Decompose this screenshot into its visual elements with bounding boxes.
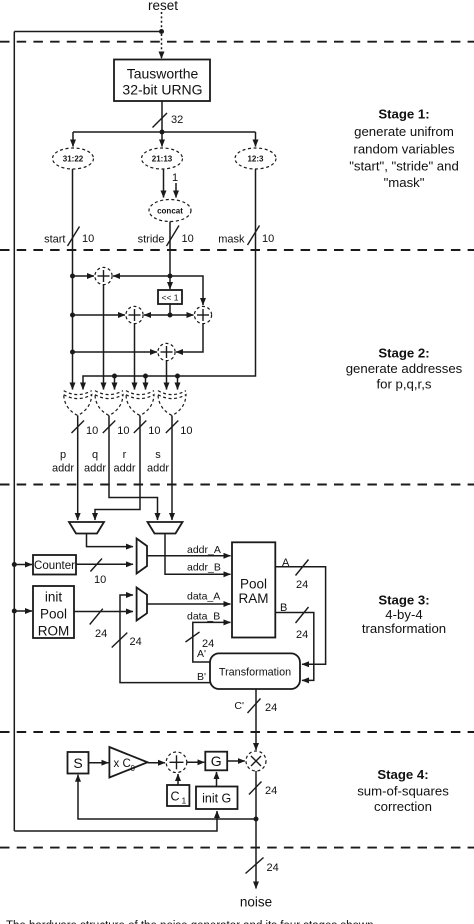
wire multiplier output to noise bbox=[255, 771, 257, 889]
wire s addr to mux M2 bbox=[171, 416, 173, 521]
junction start row3 bbox=[70, 350, 75, 355]
wire adder A1 output to XOR2 bbox=[103, 285, 105, 390]
junction start row1 bbox=[70, 274, 75, 279]
C1 box bbox=[167, 785, 189, 806]
svg-text:noise: noise bbox=[240, 895, 272, 910]
svg-text:init: init bbox=[45, 590, 63, 605]
S box bbox=[68, 752, 89, 774]
svg-text:addr_B: addr_B bbox=[187, 562, 221, 574]
junction feedback S bbox=[254, 817, 259, 822]
bus slash s 10 bbox=[166, 421, 193, 438]
svg-text:24: 24 bbox=[267, 862, 279, 874]
bus slash A' 24 bbox=[186, 632, 215, 650]
svg-text:10: 10 bbox=[86, 425, 98, 437]
XOR gate X3 bbox=[126, 391, 154, 416]
svg-text:Stage 1:: Stage 1: bbox=[378, 107, 429, 122]
URNG U1 Tausworthe box bbox=[114, 60, 210, 102]
svg-text:correction: correction bbox=[374, 799, 432, 814]
svg-text:mask: mask bbox=[218, 234, 245, 246]
svg-text:10: 10 bbox=[117, 425, 129, 437]
bus slash A 24 bbox=[296, 560, 309, 592]
Stage 2 caption bbox=[346, 346, 463, 392]
svg-text:reset: reset bbox=[148, 0, 178, 13]
svg-text:24: 24 bbox=[296, 629, 308, 641]
svg-text:addr: addr bbox=[147, 463, 169, 475]
wire feedback to S bbox=[78, 775, 256, 819]
svg-text:The hardware structure of: The hardware structure of the noise gene… bbox=[6, 920, 374, 924]
svg-text:ROM: ROM bbox=[38, 624, 70, 639]
svg-text:<< 1: << 1 bbox=[161, 293, 178, 303]
wire S to multiplier triangle bbox=[89, 762, 109, 764]
bus slash rom 24 bbox=[90, 609, 108, 640]
svg-text:data_A: data_A bbox=[187, 591, 220, 603]
svg-text:G: G bbox=[211, 753, 222, 769]
mux M3 (addr_A 2:1) bbox=[137, 539, 147, 574]
svg-text:10: 10 bbox=[182, 233, 194, 245]
junction reset/rail bbox=[159, 29, 164, 34]
wire bit-select distribution bbox=[73, 131, 256, 133]
svg-text:stride: stride bbox=[138, 234, 165, 246]
junction rail/ROM bbox=[12, 609, 17, 614]
svg-text:C: C bbox=[170, 790, 179, 804]
bit-select 31:22 bbox=[53, 148, 94, 169]
svg-text:Stage 2:: Stage 2: bbox=[378, 346, 429, 361]
svg-text:A: A bbox=[282, 557, 290, 569]
svg-text:24: 24 bbox=[265, 785, 277, 797]
wire constant 1 to concat bbox=[175, 183, 177, 198]
wire mask vertical and horizontal to XOR row bbox=[83, 169, 256, 390]
svg-text:addr: addr bbox=[52, 463, 74, 475]
wire init G to G bbox=[216, 772, 218, 787]
svg-text:Stage 3:: Stage 3: bbox=[378, 593, 429, 608]
svg-text:10: 10 bbox=[262, 233, 274, 245]
wire mask drop to XOR3 bbox=[145, 376, 147, 390]
svg-text:24: 24 bbox=[296, 579, 308, 591]
svg-text:"mask": "mask" bbox=[384, 175, 425, 190]
junction start row2 bbox=[70, 313, 75, 318]
bus slash p 10 bbox=[72, 421, 99, 438]
reset wire (dotted) into URNG bbox=[161, 12, 163, 59]
bus slash mask 10 bbox=[248, 226, 275, 246]
mux M1 (addr A select) bbox=[69, 522, 104, 534]
wire RAM B output to Transformation bbox=[275, 613, 314, 681]
svg-text:32: 32 bbox=[171, 114, 183, 126]
junction shifter out bbox=[168, 313, 173, 318]
wire adder A2 output to XOR3 bbox=[134, 324, 136, 390]
svg-text:generate addresses: generate addresses bbox=[346, 361, 463, 376]
wire drop to 12:3 bbox=[255, 132, 257, 147]
svg-text:Pool: Pool bbox=[240, 577, 267, 592]
svg-text:r: r bbox=[123, 449, 127, 461]
mux M2 (addr B select) bbox=[148, 522, 183, 534]
bus slash stride 10 bbox=[167, 226, 194, 247]
stage boundary 4 bbox=[0, 731, 474, 733]
wire start to adder A2 left bbox=[73, 314, 126, 316]
wire mux M2 out to RAM addr_B bbox=[165, 534, 231, 575]
junction mask drop r bbox=[143, 374, 148, 379]
mux M4 (data_A 2:1) bbox=[137, 588, 147, 621]
adder A5 bbox=[166, 752, 187, 773]
wire shifter output bbox=[169, 304, 171, 315]
svg-text:start: start bbox=[44, 234, 65, 246]
wire r addr jog to mux M1 bbox=[95, 416, 140, 521]
svg-text:12:3: 12:3 bbox=[247, 155, 264, 164]
bus slash B 24 bbox=[296, 607, 309, 641]
adder A3 bbox=[194, 306, 211, 323]
G box bbox=[205, 752, 227, 771]
r addr label bbox=[113, 449, 135, 475]
svg-text:10: 10 bbox=[180, 425, 192, 437]
wire G to multiplier bbox=[227, 760, 245, 762]
wire start to adder A1 bbox=[73, 275, 95, 277]
svg-text:RAM: RAM bbox=[239, 591, 269, 606]
bit-select 12:3 bbox=[235, 148, 276, 169]
wire p addr to mux M1 bbox=[77, 416, 79, 521]
Counter box bbox=[33, 555, 76, 575]
shifter << 1 box bbox=[158, 290, 182, 304]
svg-text:4-by-4: 4-by-4 bbox=[385, 607, 422, 622]
junction rail/counter bbox=[12, 562, 17, 567]
svg-text:concat: concat bbox=[157, 207, 183, 216]
wire Counter to mux M3 bbox=[76, 563, 133, 565]
adder A4 bbox=[158, 343, 175, 360]
wire A' to RAM data_B bbox=[193, 622, 231, 662]
bus slash q 10 bbox=[103, 421, 130, 438]
s addr label bbox=[147, 449, 169, 475]
wire rail to reset bbox=[14, 31, 161, 33]
svg-text:Stage 4:: Stage 4: bbox=[377, 767, 428, 782]
svg-text:data_B: data_B bbox=[187, 611, 220, 623]
stage boundary 3 bbox=[0, 484, 474, 486]
wire rail to Counter bbox=[14, 564, 32, 566]
stage boundary 2 bbox=[0, 249, 474, 251]
bus slash start 10 bbox=[68, 227, 95, 247]
svg-text:generate unifrom: generate unifrom bbox=[354, 124, 454, 139]
svg-text:x C: x C bbox=[114, 758, 131, 770]
wire rail to init Pool ROM bbox=[14, 610, 32, 612]
bus slash 32 bbox=[153, 113, 184, 128]
svg-text:sum-of-squares: sum-of-squares bbox=[357, 784, 449, 799]
wire shifter to adder A2 right bbox=[144, 314, 170, 316]
wire stride row1 to adder A3 top bbox=[170, 276, 203, 305]
svg-text:A': A' bbox=[197, 648, 206, 660]
init Pool ROM box bbox=[33, 586, 74, 639]
wire mux M4 out data_A to RAM bbox=[147, 603, 231, 605]
svg-text:0: 0 bbox=[131, 764, 136, 773]
wire start to adder A4 left bbox=[73, 351, 158, 353]
svg-text:31:22: 31:22 bbox=[63, 155, 84, 164]
bus slash out 24 bbox=[249, 782, 277, 798]
Stage 3 caption bbox=[362, 593, 446, 637]
junction distribution bbox=[160, 130, 165, 135]
wire drop to 21:13 bbox=[161, 132, 163, 147]
svg-text:21:13: 21:13 bbox=[152, 155, 173, 164]
wire stride to adder A1 right bbox=[113, 275, 170, 277]
bus slash C' 24 bbox=[248, 699, 278, 715]
adder A1 bbox=[95, 267, 112, 284]
bus slash r 10 bbox=[134, 421, 161, 438]
svg-text:10: 10 bbox=[148, 425, 160, 437]
wire URNG output bbox=[161, 101, 163, 132]
bit-select 21:13 bbox=[142, 148, 183, 169]
init G box bbox=[196, 787, 238, 810]
Stage 1 caption bbox=[349, 107, 459, 191]
wire C' output to multiplier bbox=[255, 689, 257, 750]
concat ellipse bbox=[149, 200, 191, 222]
multiplier X5 bbox=[246, 751, 266, 771]
svg-text:B: B bbox=[280, 602, 287, 614]
svg-text:addr: addr bbox=[84, 463, 106, 475]
bus slash noise 24 bbox=[246, 858, 279, 875]
svg-text:q: q bbox=[92, 449, 98, 461]
svg-text:Tausworthe: Tausworthe bbox=[127, 66, 199, 82]
wire shifter to adder A3 left bbox=[170, 314, 194, 316]
Pool RAM box bbox=[232, 542, 275, 637]
XOR gate X2 bbox=[95, 391, 123, 416]
svg-text:C': C' bbox=[234, 700, 244, 712]
wire C1 to adder A5 bbox=[177, 774, 179, 785]
wire mask drop to XOR4 bbox=[177, 376, 179, 390]
Stage 4 caption bbox=[357, 767, 449, 814]
gain triangle x C0 bbox=[109, 747, 147, 778]
wire B' feedback to mux M4 bbox=[120, 595, 210, 683]
svg-text:s: s bbox=[155, 449, 161, 461]
wire triangle to adder A5 bbox=[148, 762, 166, 764]
wire RAM A output to Transformation bbox=[275, 567, 325, 665]
svg-text:1: 1 bbox=[172, 172, 178, 184]
adder A2 bbox=[126, 306, 143, 323]
wire adder A3 output to adder A4 right bbox=[176, 324, 203, 352]
svg-text:10: 10 bbox=[94, 574, 106, 586]
wire drop to 31:22 bbox=[72, 132, 74, 147]
wire rail bottom to init G bbox=[14, 811, 217, 831]
svg-text:random variables: random variables bbox=[353, 142, 455, 157]
svg-text:init G: init G bbox=[202, 792, 231, 806]
wire adder A5 to G bbox=[187, 761, 204, 763]
svg-text:24: 24 bbox=[130, 636, 142, 648]
svg-text:Transformation: Transformation bbox=[219, 667, 291, 679]
bus slash counter 10 bbox=[90, 559, 106, 587]
Transformation box bbox=[210, 653, 300, 689]
svg-text:10: 10 bbox=[82, 233, 94, 245]
XOR gate X4 bbox=[158, 391, 186, 416]
svg-text:Pool: Pool bbox=[40, 607, 67, 622]
XOR gate X1 bbox=[64, 391, 92, 416]
p addr label bbox=[52, 449, 74, 475]
wire ROM to mux M4 bbox=[74, 611, 133, 613]
wire adder A4 output to XOR4 bbox=[166, 361, 168, 390]
wire mask drop to XOR2 bbox=[114, 376, 116, 390]
svg-text:24: 24 bbox=[95, 628, 107, 640]
wire 21:13 to concat bbox=[163, 169, 165, 198]
wire mux M3 out addr_A to RAM bbox=[147, 555, 231, 557]
svg-text:B': B' bbox=[197, 671, 206, 683]
left reset rail wire bbox=[13, 32, 15, 832]
stage boundary 1 bbox=[0, 41, 474, 43]
junction mask drop q bbox=[112, 374, 117, 379]
svg-text:p: p bbox=[60, 449, 66, 461]
svg-text:"start", "stride" and: "start", "stride" and bbox=[349, 159, 459, 174]
svg-text:addr: addr bbox=[113, 463, 135, 475]
q addr label bbox=[84, 449, 106, 475]
stage boundary 5 bbox=[0, 847, 474, 849]
svg-text:24: 24 bbox=[265, 702, 277, 714]
svg-text:S: S bbox=[73, 755, 82, 771]
svg-text:1: 1 bbox=[182, 796, 187, 806]
wire q addr jog to mux M2 bbox=[109, 416, 158, 521]
svg-text:addr_A: addr_A bbox=[187, 544, 221, 556]
svg-text:transformation: transformation bbox=[362, 621, 446, 636]
svg-text:for p,q,r,s: for p,q,r,s bbox=[377, 377, 432, 392]
svg-text:Counter: Counter bbox=[34, 560, 75, 572]
junction mask drop s bbox=[175, 374, 180, 379]
svg-text:32-bit URNG: 32-bit URNG bbox=[122, 82, 202, 98]
wire mux M1 out to mux M3 bbox=[87, 534, 134, 547]
wire start vertical bbox=[72, 169, 74, 390]
wire stride vertical (concat to shifter) bbox=[169, 222, 171, 290]
junction stride row1 bbox=[168, 274, 173, 279]
bus slash B' 24 bbox=[112, 633, 142, 648]
